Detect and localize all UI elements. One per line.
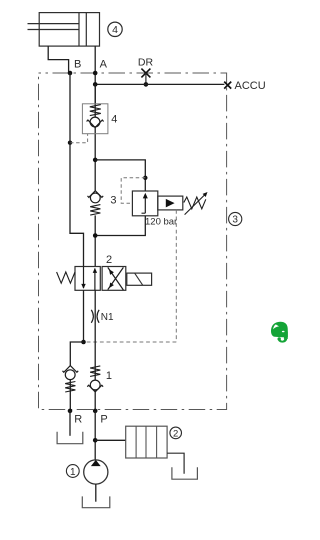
valve 2 flow path A (arrow up) [94, 269, 96, 291]
adjustment arrow [185, 194, 206, 215]
cylinder piston [79, 13, 86, 47]
svg-text:1: 1 [106, 370, 112, 382]
relief valve arrow [144, 198, 146, 213]
wire: valve 2 B outlet down [83, 290, 85, 342]
check valve (R line) spring [65, 382, 75, 393]
manifold enclosure dash-dot border [39, 73, 227, 410]
svg-text:3: 3 [232, 215, 238, 226]
crossed ports [108, 267, 124, 290]
svg-text:2: 2 [106, 254, 112, 266]
svg-text:4: 4 [111, 113, 117, 125]
node P [93, 409, 98, 414]
circled label 2 [170, 427, 182, 439]
svg-text:DR: DR [138, 57, 154, 69]
svg-text:3: 3 [110, 194, 116, 206]
pilot triangle [166, 199, 175, 208]
node A-ACCU junction [93, 82, 98, 87]
valve 4 spring [90, 105, 101, 116]
wire: A line through valve 4 down to relief branch [94, 84, 96, 190]
node: relief outlet on A line [93, 233, 98, 238]
node: pilot tap on B line [68, 141, 72, 145]
solenoid valve 2 right position box [102, 267, 126, 291]
wire: check valve to R [69, 380, 71, 411]
wire: cylinder port B down to node B [48, 46, 68, 73]
ACCU plugged port X [224, 82, 231, 89]
valve 2 flow path B (arrow down) [83, 267, 85, 289]
wire: R to tank [69, 411, 71, 436]
svg-text:B: B [74, 58, 81, 70]
tank (pump) [82, 496, 110, 507]
wire: A to ACCU [95, 83, 224, 85]
node R [68, 409, 73, 414]
relief valve spring [184, 197, 206, 209]
wire: DR stub [145, 73, 147, 84]
node DR junction [144, 82, 149, 87]
node: pilot tap for relief valve [143, 176, 147, 180]
relief valve remote pilot (dashed) [121, 178, 145, 204]
unit 2 striped block [126, 426, 167, 458]
evernote icon [271, 322, 288, 343]
check valve 1 spring [90, 366, 100, 377]
wire: valve 2 A outlet down through N1 [94, 290, 96, 380]
relief valve 3 body [132, 191, 157, 216]
node B junction [68, 71, 73, 76]
svg-text:120 bar: 120 bar [145, 217, 177, 228]
relief valve drain (dashed) [87, 210, 177, 342]
wire: branch to unit 2 [95, 439, 126, 441]
circled label 1 [66, 465, 79, 478]
tank (unit 2) [172, 467, 198, 479]
tank (R) [57, 432, 83, 444]
svg-text:1: 1 [70, 467, 76, 478]
wire: check valve 1 to P [94, 390, 96, 411]
svg-text:A: A [100, 58, 108, 70]
pilot operated check valve 4 box [82, 104, 108, 134]
svg-text:4: 4 [112, 24, 118, 36]
node A junction [93, 71, 98, 76]
check valve 1 seat [87, 385, 103, 392]
svg-text:P: P [100, 413, 107, 425]
solenoid valve 2 left position box [75, 267, 100, 291]
wire: jog left to check valve [70, 342, 83, 366]
wire: unit 2 outlet to tank [167, 453, 184, 474]
svg-text:ACCU: ACCU [235, 80, 266, 92]
check valve (R line) ball [65, 370, 75, 380]
pilot line (dashed) to valve 4 [70, 134, 88, 143]
node: branch to unit 2 [93, 438, 98, 443]
orifice N1 [91, 310, 99, 323]
check valve 1 ball [90, 380, 100, 390]
check valve (A line, below relief branch) seat [88, 191, 104, 198]
relief valve outlet wire [95, 216, 145, 236]
svg-text:R: R [74, 413, 82, 425]
cylinder (4) body [39, 13, 99, 47]
circled label 3 (manifold) [229, 212, 242, 225]
check valve spring [90, 205, 100, 216]
svg-text:N1: N1 [101, 312, 114, 323]
valve 2 solenoid [127, 273, 152, 285]
valve 4 poppet ball [90, 117, 100, 127]
wire: P down to pump [94, 411, 96, 460]
node: drain junction [81, 340, 86, 345]
node: relief branch on A line [93, 158, 98, 163]
relief valve pilot box [158, 196, 183, 210]
wire: cylinder port A down [94, 46, 96, 104]
circled label 4 (cylinder) [108, 22, 122, 36]
wire: B line down and jog to valve 2 [70, 73, 84, 267]
pump 1 [84, 460, 108, 484]
check valve ball [90, 193, 100, 203]
cylinder rod [28, 24, 80, 30]
wire: pump to tank [95, 484, 97, 502]
DR plugged port X [141, 69, 150, 78]
svg-text:2: 2 [173, 428, 178, 439]
check valve (R line) seat [63, 366, 79, 373]
valve 2 spring [57, 272, 75, 283]
valve 4 seat [87, 120, 104, 128]
wire: branch to relief valve [95, 160, 145, 191]
wire: A line to valve 2 [94, 215, 96, 266]
